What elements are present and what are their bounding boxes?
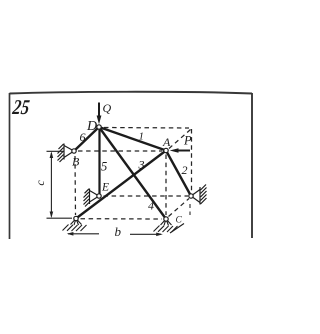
dashed box edge D to top-right corner	[104, 127, 189, 130]
bar 1 D to A	[99, 127, 166, 151]
svg-text:B: B	[72, 155, 80, 169]
frame left border	[9, 93, 11, 239]
svg-text:P: P	[183, 134, 192, 148]
dashed box edge top-right corner down to W	[191, 129, 193, 193]
node at bottom-left	[74, 216, 78, 220]
node W support	[189, 194, 193, 198]
svg-text:C: C	[176, 216, 183, 226]
bar 3 bottom-left node to A	[76, 151, 166, 219]
support wall at B	[58, 144, 75, 163]
svg-text:6: 6	[80, 130, 86, 144]
support wall at W	[191, 185, 207, 205]
dimension c line with arrows	[50, 151, 54, 218]
bar 5 D to E	[98, 127, 100, 196]
frame top border	[10, 92, 253, 94]
svg-text:A: A	[162, 135, 171, 149]
dashed box edge B to A	[78, 150, 162, 152]
svg-text:D: D	[86, 119, 97, 134]
support wall at E	[84, 189, 100, 207]
svg-text:c: c	[33, 180, 47, 186]
bar 4 D to C	[99, 127, 166, 219]
bar 2 A to W	[166, 151, 191, 197]
frame right border	[251, 93, 253, 238]
dimension b line right segment with arrow	[130, 233, 163, 237]
svg-text:25: 25	[10, 96, 30, 119]
svg-text:E: E	[101, 182, 109, 194]
node A	[164, 148, 168, 152]
dashed box edge bottom-left node to C	[81, 218, 163, 220]
dashed box diagonal C to W	[169, 199, 190, 217]
node C	[164, 217, 168, 221]
svg-text:b: b	[115, 224, 122, 239]
force P arrow at A	[170, 148, 190, 153]
svg-text:Q: Q	[103, 101, 112, 115]
node D	[97, 125, 101, 129]
ground support at bottom-left node	[63, 219, 87, 232]
dimension b line left segment with arrow	[67, 232, 99, 236]
dashed box edge E to W	[104, 195, 189, 197]
dimension c extension line bottom	[47, 217, 73, 219]
short dashed segment below W	[189, 204, 191, 215]
ground support at C	[154, 219, 185, 233]
svg-text:5: 5	[101, 160, 107, 174]
svg-text:4: 4	[148, 199, 154, 213]
dimension c extension line top	[47, 150, 64, 152]
force Q arrow at D	[97, 103, 102, 125]
bar 6 B to D	[74, 127, 99, 151]
svg-text:3: 3	[138, 158, 145, 172]
dashed box diagonal top-right corner to A	[169, 130, 191, 149]
dashed box edge A down to C	[165, 155, 167, 216]
svg-text:2: 2	[182, 163, 188, 177]
dashed box edge B down to bottom-left node	[74, 156, 77, 215]
node B	[72, 149, 76, 153]
svg-text:1: 1	[139, 131, 145, 143]
node E	[97, 194, 101, 198]
